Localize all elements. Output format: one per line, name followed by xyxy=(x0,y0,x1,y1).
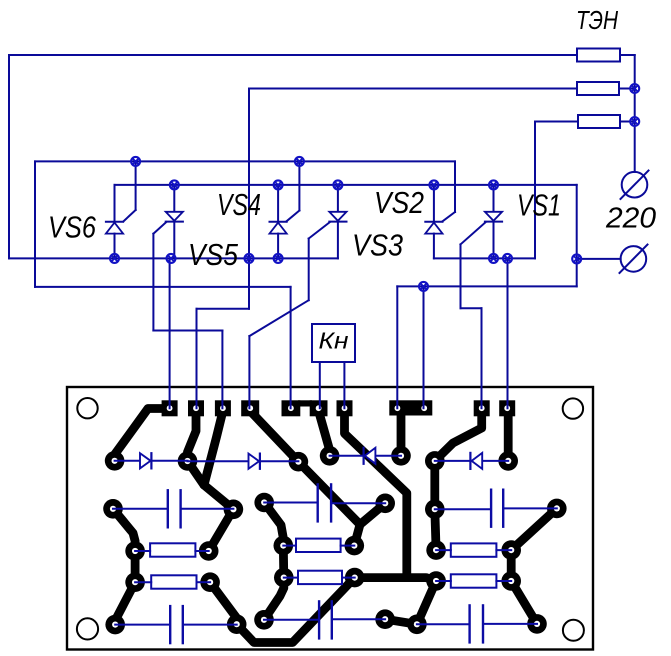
svg-text:VS1: VS1 xyxy=(517,188,561,223)
svg-text:VS3: VS3 xyxy=(352,227,403,262)
svg-text:ТЭН: ТЭН xyxy=(576,5,618,35)
svg-text:VS4: VS4 xyxy=(217,187,261,222)
svg-text:220: 220 xyxy=(605,203,656,235)
svg-text:Кн: Кн xyxy=(319,327,349,353)
svg-text:VS2: VS2 xyxy=(374,185,424,220)
svg-text:VS5: VS5 xyxy=(188,237,239,272)
svg-text:VS6: VS6 xyxy=(48,210,97,245)
